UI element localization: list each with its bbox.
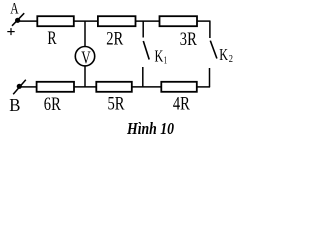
plus sign <box>7 28 14 35</box>
wire B to 6R <box>21 86 37 88</box>
wire voltmeter bottom <box>84 66 86 87</box>
resistor 5R <box>96 82 132 92</box>
switch K1 bottom stub <box>142 67 144 87</box>
wire 4R to K2 bottom <box>197 86 210 88</box>
svg-text:B: B <box>9 95 20 115</box>
resistor 3R <box>160 16 198 26</box>
terminal A dot <box>15 18 20 23</box>
switch K2 blade <box>210 41 217 59</box>
voltmeter V <box>75 47 94 66</box>
svg-text:1: 1 <box>164 54 168 66</box>
svg-text:R: R <box>47 28 56 49</box>
wire 6R to 5R <box>74 86 96 88</box>
terminal B dot <box>17 84 22 89</box>
wire 5R to 4R <box>132 86 162 88</box>
resistor R <box>37 16 74 26</box>
wire R to 2R <box>74 20 98 22</box>
switch K1 top stub <box>142 21 144 37</box>
svg-text:A: A <box>10 1 19 18</box>
node junction voltmeter top <box>84 21 86 46</box>
svg-text:6R: 6R <box>44 94 61 115</box>
wire 3R to K2 top <box>197 20 211 22</box>
svg-text:5R: 5R <box>108 93 125 114</box>
switch K2 top stub <box>209 21 211 38</box>
switch K2 bottom stub <box>209 68 211 87</box>
svg-text:Hình 10: Hình 10 <box>126 119 174 138</box>
svg-text:2R: 2R <box>106 29 123 50</box>
wire A to R <box>20 20 38 22</box>
wire 2R to 3R <box>136 20 160 22</box>
svg-text:4R: 4R <box>173 93 190 114</box>
terminal A arrow stroke <box>12 13 24 26</box>
terminal B arrow stroke <box>13 80 26 94</box>
resistor 2R <box>98 16 136 26</box>
resistor 4R <box>161 82 197 92</box>
svg-text:K: K <box>155 47 164 66</box>
switch K1 blade <box>143 41 149 60</box>
svg-text:K: K <box>219 45 228 64</box>
resistor 6R <box>37 82 74 92</box>
svg-text:3R: 3R <box>180 29 197 50</box>
svg-text:V: V <box>81 48 90 68</box>
svg-text:2: 2 <box>229 53 233 65</box>
